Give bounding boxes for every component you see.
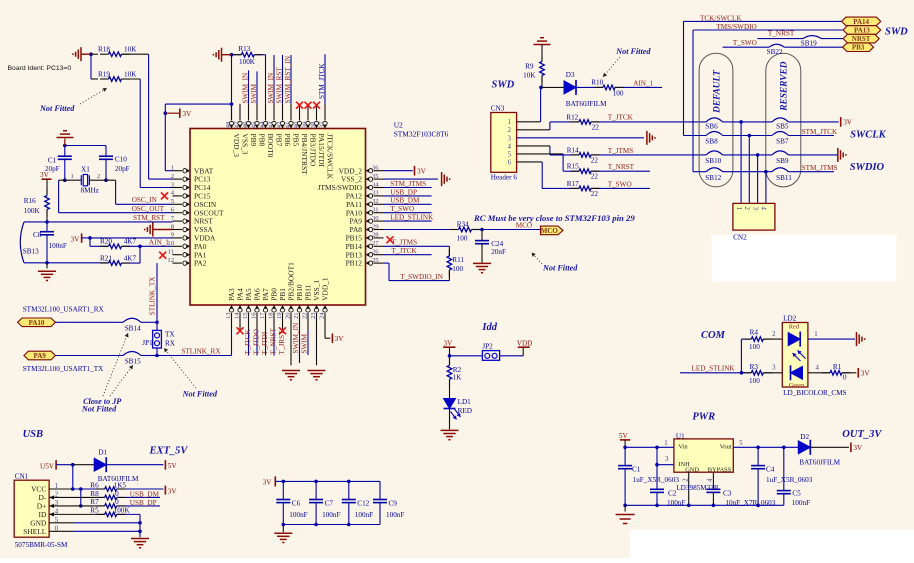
- svg-text:T_JTMS: T_JTMS: [392, 238, 418, 246]
- svg-text:LED_STLINK: LED_STLINK: [692, 365, 736, 373]
- svg-text:5V: 5V: [168, 462, 178, 470]
- svg-text:5: 5: [508, 151, 512, 158]
- svg-text:35: 35: [372, 173, 379, 180]
- svg-text:STM32F103C8T6: STM32F103C8T6: [394, 130, 449, 139]
- svg-text:U2: U2: [394, 121, 403, 130]
- svg-text:R18: R18: [98, 46, 110, 54]
- svg-text:25: 25: [372, 257, 379, 264]
- svg-text:1: 1: [71, 173, 74, 180]
- svg-text:100: 100: [613, 89, 624, 97]
- svg-text:NRST: NRST: [852, 35, 871, 43]
- svg-text:4K7: 4K7: [124, 238, 137, 246]
- svg-text:EXT_5V: EXT_5V: [149, 446, 189, 457]
- svg-text:SWIM: SWIM: [301, 333, 309, 353]
- svg-text:100K: 100K: [239, 58, 256, 66]
- svg-text:SWIM_IN: SWIM_IN: [241, 72, 249, 104]
- svg-text:C1: C1: [632, 466, 641, 474]
- svg-text:6: 6: [508, 159, 512, 166]
- svg-text:PB9: PB9: [249, 134, 258, 147]
- svg-text:R3: R3: [750, 363, 759, 371]
- svg-text:19: 19: [276, 312, 283, 319]
- svg-text:42: 42: [276, 122, 283, 129]
- svg-text:Vin: Vin: [678, 444, 688, 451]
- svg-text:100: 100: [457, 235, 468, 243]
- svg-text:OSC_OUT: OSC_OUT: [132, 205, 165, 213]
- svg-text:SB11: SB11: [776, 174, 792, 182]
- svg-text:PB4/JNTRST: PB4/JNTRST: [300, 134, 309, 176]
- svg-text:31: 31: [372, 207, 379, 214]
- svg-text:R5: R5: [90, 507, 99, 515]
- svg-text:43: 43: [267, 121, 274, 128]
- svg-text:TX: TX: [165, 331, 175, 339]
- svg-text:JTCK/SWCLK: JTCK/SWCLK: [326, 134, 335, 180]
- svg-text:C9: C9: [389, 500, 398, 508]
- svg-text:1: 1: [814, 331, 817, 338]
- svg-text:3V: 3V: [335, 335, 345, 343]
- svg-text:Not Fitted: Not Fitted: [39, 104, 75, 113]
- svg-text:LD1: LD1: [458, 398, 472, 406]
- svg-text:2: 2: [772, 331, 776, 338]
- svg-text:24: 24: [318, 312, 325, 319]
- svg-text:DEFAULT: DEFAULT: [713, 69, 723, 114]
- svg-text:2: 2: [508, 127, 512, 134]
- svg-text:Board Ident: PC13=0: Board Ident: PC13=0: [8, 65, 72, 72]
- svg-text:VSS_3: VSS_3: [241, 134, 250, 155]
- svg-text:4: 4: [816, 365, 820, 372]
- svg-text:RX: RX: [165, 339, 176, 347]
- svg-text:3V: 3V: [183, 110, 193, 118]
- svg-text:SB12: SB12: [705, 174, 721, 182]
- svg-text:SWDIO: SWDIO: [850, 162, 885, 173]
- svg-text:C24: C24: [491, 240, 503, 248]
- svg-text:STM32L100_USART1_TX: STM32L100_USART1_TX: [23, 365, 104, 373]
- svg-text:R4: R4: [750, 329, 759, 337]
- svg-text:T_JRST: T_JRST: [278, 330, 286, 355]
- svg-text:17: 17: [259, 312, 266, 319]
- svg-text:C3: C3: [723, 490, 732, 498]
- svg-text:PB3/JTDO: PB3/JTDO: [309, 134, 318, 168]
- svg-text:13: 13: [225, 312, 232, 319]
- svg-text:T_JTMS: T_JTMS: [608, 147, 634, 155]
- svg-text:VDD_3: VDD_3: [232, 134, 241, 158]
- svg-text:USB_DM: USB_DM: [130, 490, 160, 498]
- svg-text:100nF: 100nF: [289, 511, 307, 519]
- svg-text:SB9: SB9: [776, 157, 789, 165]
- svg-text:SB5: SB5: [776, 122, 789, 130]
- svg-text:22: 22: [591, 173, 599, 181]
- svg-text:T_SWDIO_IN: T_SWDIO_IN: [400, 273, 444, 281]
- svg-text:20pF: 20pF: [115, 165, 130, 173]
- svg-text:R6: R6: [90, 481, 99, 489]
- svg-text:3V: 3V: [263, 478, 273, 486]
- svg-text:1uF_X5R_0603: 1uF_X5R_0603: [633, 476, 680, 484]
- svg-text:LED_STLINK: LED_STLINK: [390, 214, 434, 222]
- svg-text:C10: C10: [115, 156, 127, 164]
- svg-text:2: 2: [683, 478, 690, 482]
- svg-text:29: 29: [372, 223, 379, 230]
- svg-text:33: 33: [372, 190, 379, 197]
- svg-text:46: 46: [242, 121, 249, 128]
- svg-text:41: 41: [284, 122, 291, 129]
- svg-text:37: 37: [318, 121, 325, 128]
- svg-text:MCO: MCO: [541, 227, 559, 235]
- svg-text:SB14: SB14: [125, 325, 141, 333]
- svg-text:CN3: CN3: [491, 105, 505, 113]
- svg-text:COM: COM: [701, 330, 726, 341]
- svg-text:20nF: 20nF: [491, 248, 506, 256]
- svg-text:STM_JTMS: STM_JTMS: [802, 164, 838, 172]
- svg-text:100: 100: [452, 265, 463, 273]
- svg-text:47: 47: [233, 121, 240, 128]
- svg-text:1K5: 1K5: [114, 481, 127, 489]
- svg-text:32: 32: [372, 198, 379, 205]
- svg-text:38: 38: [310, 121, 317, 128]
- svg-text:4: 4: [707, 478, 714, 482]
- svg-text:CN1: CN1: [15, 473, 29, 481]
- svg-text:40: 40: [293, 121, 300, 128]
- svg-text:R7: R7: [90, 498, 99, 506]
- svg-text:D3: D3: [566, 71, 575, 79]
- svg-text:5: 5: [739, 440, 743, 447]
- svg-text:Not Fitted: Not Fitted: [182, 389, 218, 398]
- svg-text:JP1: JP1: [142, 339, 153, 347]
- svg-text:C1: C1: [48, 156, 57, 164]
- svg-text:LD3985M33R: LD3985M33R: [676, 484, 719, 492]
- svg-text:PB12: PB12: [346, 259, 363, 268]
- svg-text:Not Fitted: Not Fitted: [81, 405, 117, 414]
- svg-text:3V: 3V: [168, 487, 178, 495]
- svg-text:STLINK_TX: STLINK_TX: [149, 276, 157, 316]
- svg-text:44: 44: [259, 121, 266, 128]
- svg-text:R20: R20: [100, 238, 112, 246]
- svg-text:D1: D1: [98, 448, 107, 456]
- svg-text:10K: 10K: [124, 46, 137, 54]
- svg-text:34: 34: [372, 181, 379, 188]
- svg-text:26: 26: [372, 249, 379, 256]
- svg-text:VDD_1: VDD_1: [321, 277, 330, 301]
- svg-text:4K7: 4K7: [124, 254, 137, 262]
- svg-text:R17: R17: [567, 180, 579, 188]
- svg-text:C5: C5: [792, 490, 801, 498]
- svg-text:SWD: SWD: [885, 27, 908, 38]
- svg-text:14: 14: [233, 312, 240, 319]
- svg-text:T_NRST: T_NRST: [270, 328, 278, 355]
- svg-text:R19: R19: [98, 70, 110, 78]
- svg-text:STM_JTCK: STM_JTCK: [802, 128, 838, 136]
- svg-text:USB_DP: USB_DP: [390, 188, 417, 196]
- svg-text:PA2: PA2: [194, 259, 207, 268]
- svg-text:STM_JTCK: STM_JTCK: [318, 63, 326, 99]
- svg-text:VDD: VDD: [517, 340, 533, 348]
- svg-text:BAT60JFILM: BAT60JFILM: [799, 459, 840, 467]
- svg-text:C4: C4: [766, 466, 775, 474]
- svg-text:3V: 3V: [40, 171, 50, 179]
- svg-text:100nF: 100nF: [322, 511, 340, 519]
- svg-text:T_JTCK: T_JTCK: [608, 114, 634, 122]
- svg-text:JP2: JP2: [482, 343, 493, 351]
- svg-text:5075BMR-05-SM: 5075BMR-05-SM: [15, 541, 68, 549]
- svg-text:Not Fitted: Not Fitted: [615, 47, 651, 56]
- svg-text:PA13: PA13: [854, 27, 870, 35]
- svg-text:T_JTCK: T_JTCK: [392, 247, 418, 255]
- svg-text:100nF: 100nF: [386, 511, 404, 519]
- svg-text:RESERVED: RESERVED: [780, 61, 790, 112]
- svg-text:SB7: SB7: [776, 138, 789, 146]
- svg-text:22: 22: [591, 156, 599, 164]
- svg-text:OSC_IN: OSC_IN: [132, 196, 158, 204]
- svg-text:22: 22: [591, 190, 599, 198]
- svg-text:100: 100: [749, 377, 760, 385]
- svg-text:C12: C12: [357, 500, 369, 508]
- svg-text:R10: R10: [591, 78, 603, 86]
- svg-text:5V: 5V: [619, 432, 629, 440]
- svg-text:3: 3: [665, 456, 669, 463]
- svg-text:SWIM: SWIM: [250, 83, 258, 103]
- svg-text:Idd: Idd: [481, 322, 497, 333]
- svg-text:R16: R16: [24, 197, 36, 205]
- svg-text:11: 11: [168, 249, 174, 256]
- svg-text:8MHz: 8MHz: [81, 187, 99, 195]
- svg-text:RED: RED: [458, 407, 472, 415]
- svg-text:28: 28: [372, 232, 379, 239]
- svg-text:R9: R9: [525, 63, 534, 71]
- svg-text:SWIM_RST: SWIM_RST: [275, 67, 283, 104]
- svg-text:3: 3: [772, 365, 776, 372]
- svg-text:3V: 3V: [444, 340, 454, 348]
- svg-text:3V: 3V: [861, 369, 871, 377]
- svg-text:T_JTDO: T_JTDO: [253, 329, 261, 355]
- svg-text:USB_DM: USB_DM: [390, 197, 420, 205]
- svg-text:3V: 3V: [853, 444, 863, 452]
- svg-text:T_SWO: T_SWO: [608, 180, 632, 188]
- svg-text:3: 3: [751, 207, 758, 211]
- svg-text:SB10: SB10: [705, 157, 721, 165]
- svg-text:22: 22: [592, 123, 600, 131]
- svg-text:16: 16: [250, 312, 257, 319]
- svg-text:PB3: PB3: [852, 44, 865, 52]
- svg-text:STM_RST: STM_RST: [133, 214, 165, 222]
- svg-text:SB6: SB6: [705, 122, 718, 130]
- svg-text:RC Must be very close to STM32: RC Must be very close to STM32F103 pin 2…: [473, 213, 635, 223]
- svg-text:45: 45: [250, 121, 257, 128]
- svg-text:0: 0: [843, 373, 847, 381]
- svg-text:R1: R1: [833, 363, 842, 371]
- svg-text:Header 6: Header 6: [491, 173, 518, 181]
- svg-text:LD2: LD2: [783, 315, 797, 323]
- svg-text:39: 39: [301, 121, 308, 128]
- svg-text:27: 27: [372, 240, 379, 247]
- svg-text:SWIM_IN: SWIM_IN: [292, 322, 300, 354]
- svg-text:PB5: PB5: [292, 134, 301, 147]
- svg-text:100: 100: [749, 343, 760, 351]
- svg-text:U5V: U5V: [40, 462, 55, 470]
- svg-text:3V: 3V: [843, 119, 853, 127]
- svg-text:R11: R11: [452, 256, 464, 264]
- svg-text:R15: R15: [567, 163, 579, 171]
- svg-text:R21: R21: [100, 254, 112, 262]
- svg-text:Green: Green: [789, 382, 805, 389]
- svg-text:R12: R12: [566, 113, 578, 121]
- svg-text:PB6: PB6: [283, 134, 292, 147]
- svg-text:GND: GND: [685, 467, 699, 474]
- svg-text:AIN_1: AIN_1: [149, 239, 169, 247]
- svg-text:R34: R34: [457, 221, 469, 229]
- svg-text:R8: R8: [90, 490, 99, 498]
- svg-text:D2: D2: [800, 433, 809, 441]
- svg-text:Not Fitted: Not Fitted: [542, 264, 578, 273]
- svg-text:100nF: 100nF: [49, 242, 67, 250]
- svg-text:100K: 100K: [114, 507, 131, 515]
- svg-text:BAT60JFILM: BAT60JFILM: [566, 100, 607, 108]
- svg-text:1: 1: [735, 207, 742, 210]
- svg-text:PA10: PA10: [29, 319, 45, 327]
- svg-text:SB15: SB15: [125, 357, 141, 365]
- svg-text:T_NRST: T_NRST: [768, 30, 795, 38]
- svg-text:12: 12: [167, 257, 174, 264]
- svg-text:SWCLK: SWCLK: [850, 130, 887, 141]
- svg-text:PWR: PWR: [692, 411, 715, 422]
- svg-text:0: 0: [115, 498, 119, 506]
- svg-text:C6: C6: [292, 500, 301, 508]
- svg-text:STM32L100_USART1_RX: STM32L100_USART1_RX: [23, 305, 105, 313]
- svg-text:USB: USB: [23, 429, 43, 440]
- svg-text:100nF: 100nF: [355, 511, 373, 519]
- svg-text:Vout: Vout: [720, 444, 732, 451]
- svg-text:SWD: SWD: [492, 79, 515, 90]
- svg-text:100nF: 100nF: [792, 499, 810, 507]
- svg-text:10K: 10K: [523, 72, 536, 80]
- svg-text:1: 1: [664, 440, 667, 447]
- svg-text:48: 48: [225, 121, 232, 128]
- svg-text:36: 36: [372, 165, 379, 172]
- svg-text:OUT_3V: OUT_3V: [842, 429, 882, 440]
- svg-text:R13: R13: [238, 45, 250, 53]
- svg-text:CN2: CN2: [733, 234, 747, 242]
- svg-text:21: 21: [293, 312, 300, 319]
- svg-text:T_SWO: T_SWO: [733, 39, 757, 47]
- svg-text:SWIM_RST_IN: SWIM_RST_IN: [284, 55, 292, 103]
- svg-text:2: 2: [743, 207, 750, 211]
- svg-text:22: 22: [301, 312, 308, 319]
- svg-text:3V: 3V: [417, 167, 427, 175]
- svg-text:15: 15: [242, 312, 249, 319]
- svg-text:PB7: PB7: [275, 134, 284, 147]
- svg-text:BYPASS: BYPASS: [708, 467, 732, 474]
- svg-text:T_SWO: T_SWO: [390, 205, 414, 213]
- svg-text:2: 2: [97, 173, 100, 180]
- svg-text:1uF_X5R_0603: 1uF_X5R_0603: [766, 476, 813, 484]
- svg-text:SB8: SB8: [705, 138, 718, 146]
- svg-text:T_JTCK: T_JTCK: [244, 329, 252, 355]
- svg-text:BOOT0: BOOT0: [266, 134, 275, 158]
- svg-text:STM_JTMS: STM_JTMS: [390, 180, 426, 188]
- svg-text:23: 23: [310, 312, 317, 319]
- svg-text:LD_BICOLOR_CMS: LD_BICOLOR_CMS: [783, 389, 847, 397]
- svg-text:PA14: PA14: [853, 18, 869, 26]
- svg-text:STLINK_RX: STLINK_RX: [181, 348, 221, 356]
- svg-text:4: 4: [760, 207, 767, 211]
- svg-text:20: 20: [284, 312, 291, 319]
- svg-text:SWIM_IN: SWIM_IN: [267, 72, 275, 104]
- svg-text:18: 18: [267, 312, 274, 319]
- svg-text:C8: C8: [33, 231, 42, 239]
- svg-text:Red: Red: [789, 324, 800, 331]
- svg-text:PA15/JTDI: PA15/JTDI: [317, 134, 326, 168]
- svg-text:3: 3: [508, 135, 512, 142]
- svg-text:PA9: PA9: [33, 352, 46, 360]
- svg-text:USB_DP: USB_DP: [130, 499, 157, 507]
- svg-text:T_NRST: T_NRST: [608, 163, 635, 171]
- svg-text:0: 0: [115, 490, 119, 498]
- svg-text:SB13: SB13: [23, 248, 39, 256]
- svg-text:PB8: PB8: [258, 134, 267, 147]
- svg-text:30: 30: [372, 215, 379, 222]
- svg-text:C7: C7: [325, 500, 334, 508]
- svg-text:1: 1: [508, 119, 511, 126]
- svg-text:4: 4: [508, 143, 512, 150]
- svg-text:T_JTDI: T_JTDI: [261, 331, 269, 354]
- svg-text:10K: 10K: [124, 70, 137, 78]
- svg-text:100K: 100K: [24, 207, 41, 215]
- svg-text:U1: U1: [676, 432, 685, 440]
- svg-text:SHELL: SHELL: [23, 527, 46, 536]
- svg-text:R14: R14: [567, 146, 579, 154]
- svg-text:3V: 3V: [71, 236, 81, 244]
- svg-text:SB22: SB22: [767, 48, 783, 56]
- svg-text:AIN_1: AIN_1: [633, 79, 653, 87]
- svg-text:X1: X1: [81, 166, 90, 174]
- svg-text:SB19: SB19: [801, 40, 817, 48]
- svg-text:1K: 1K: [453, 373, 463, 381]
